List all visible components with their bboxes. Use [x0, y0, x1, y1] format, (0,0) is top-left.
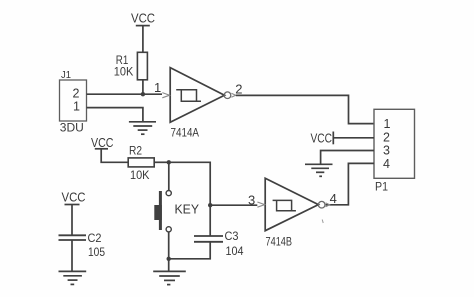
svg-text:C3: C3 [225, 229, 239, 243]
wire KEY bottom to junction [168, 232, 170, 259]
wire junction to ground [168, 259, 170, 271]
Schmitt inverter U1A 7414A triangle [170, 68, 224, 123]
connector P1 box [374, 109, 415, 178]
svg-text:VCC: VCC [62, 190, 86, 205]
svg-text:105: 105 [88, 245, 105, 259]
wire C3 bottom to KEY junction [169, 242, 211, 259]
stray scan speck below U2B output [322, 220, 323, 224]
U1A output bubble [224, 92, 231, 99]
wire VCC to R2 left [101, 149, 128, 163]
junction node right of R2 [167, 160, 171, 164]
U1A output pin arrow [231, 93, 235, 97]
U2B input pin arrow [257, 202, 264, 207]
svg-text:C2: C2 [88, 231, 102, 245]
wire node to C3 branch [169, 162, 210, 205]
wire VCC to P1 pin2 [333, 137, 374, 139]
svg-text:7414A: 7414A [171, 125, 200, 139]
U2B output bubble [318, 201, 325, 208]
svg-text:VCC: VCC [131, 11, 155, 26]
svg-text:3DU: 3DU [60, 123, 84, 135]
wire J1 pin1 to ground [87, 108, 143, 122]
wire VCC to C2 top [71, 205, 73, 236]
svg-text:1: 1 [73, 100, 80, 114]
svg-text:1: 1 [384, 117, 391, 131]
svg-text:4: 4 [330, 191, 337, 206]
power flag VCC supply for R1 [131, 11, 155, 26]
svg-text:1: 1 [154, 80, 161, 95]
ground at P1 pin3 [305, 164, 333, 176]
ground below C2 [59, 271, 87, 284]
wire node down to switch KEY top [168, 162, 170, 190]
svg-text:VCC: VCC [311, 131, 333, 146]
wire J1 pin2 to U1A input [87, 93, 163, 95]
ground below KEY and C3 [153, 271, 186, 284]
power flag VCC supply for R2 [91, 135, 114, 150]
wire C3 top [209, 205, 211, 236]
Schmitt inverter U2B 7414B triangle [265, 178, 318, 231]
power flag VCC at P1 pin2 [311, 131, 334, 146]
junction node at R1 bottom [141, 92, 145, 96]
resistor R1 [137, 52, 147, 80]
wire P1 pin3 to ground [321, 151, 374, 164]
wire P1 pin4 to U2B output [326, 163, 374, 204]
svg-text:2: 2 [235, 82, 242, 97]
wire R2 right to node [154, 161, 169, 163]
svg-text:10K: 10K [114, 67, 134, 79]
svg-text:J1: J1 [61, 69, 71, 81]
svg-text:10K: 10K [130, 170, 150, 182]
svg-text:7414B: 7414B [266, 234, 293, 248]
wire C2 bottom to ground [71, 240, 73, 271]
svg-text:104: 104 [226, 244, 244, 258]
connector J1 box [60, 80, 87, 121]
svg-text:KEY: KEY [175, 202, 200, 216]
svg-text:R2: R2 [129, 146, 142, 158]
wire C3 node to U2B input [210, 204, 257, 206]
svg-text:4: 4 [383, 157, 390, 171]
ground below J1 pin1 [129, 122, 156, 134]
capacitor C3 [194, 236, 223, 242]
resistor R2 [128, 158, 154, 167]
switch KEY actuator bar [154, 191, 162, 230]
junction node below KEY [167, 257, 171, 261]
svg-text:2: 2 [383, 131, 390, 145]
switch KEY bottom terminal [166, 227, 171, 232]
capacitor C2 [59, 235, 87, 240]
svg-text:3: 3 [383, 144, 390, 158]
svg-text:P1: P1 [375, 180, 388, 194]
U1A input pin arrow [162, 93, 169, 98]
U2B hysteresis symbol [273, 200, 296, 210]
wire VCC to R1 top [142, 26, 144, 53]
svg-text:R1: R1 [116, 55, 129, 67]
junction node above C3 [208, 203, 212, 207]
svg-text:2: 2 [73, 87, 80, 101]
svg-text:VCC: VCC [91, 135, 114, 150]
switch KEY top terminal [166, 191, 171, 196]
wire U1A output to P1 pin1 [236, 95, 374, 123]
U1A hysteresis symbol [176, 90, 201, 102]
power flag VCC supply for C2 [62, 190, 86, 205]
U2B output pin arrow [326, 203, 330, 207]
wire R1 bottom to node [142, 80, 144, 94]
